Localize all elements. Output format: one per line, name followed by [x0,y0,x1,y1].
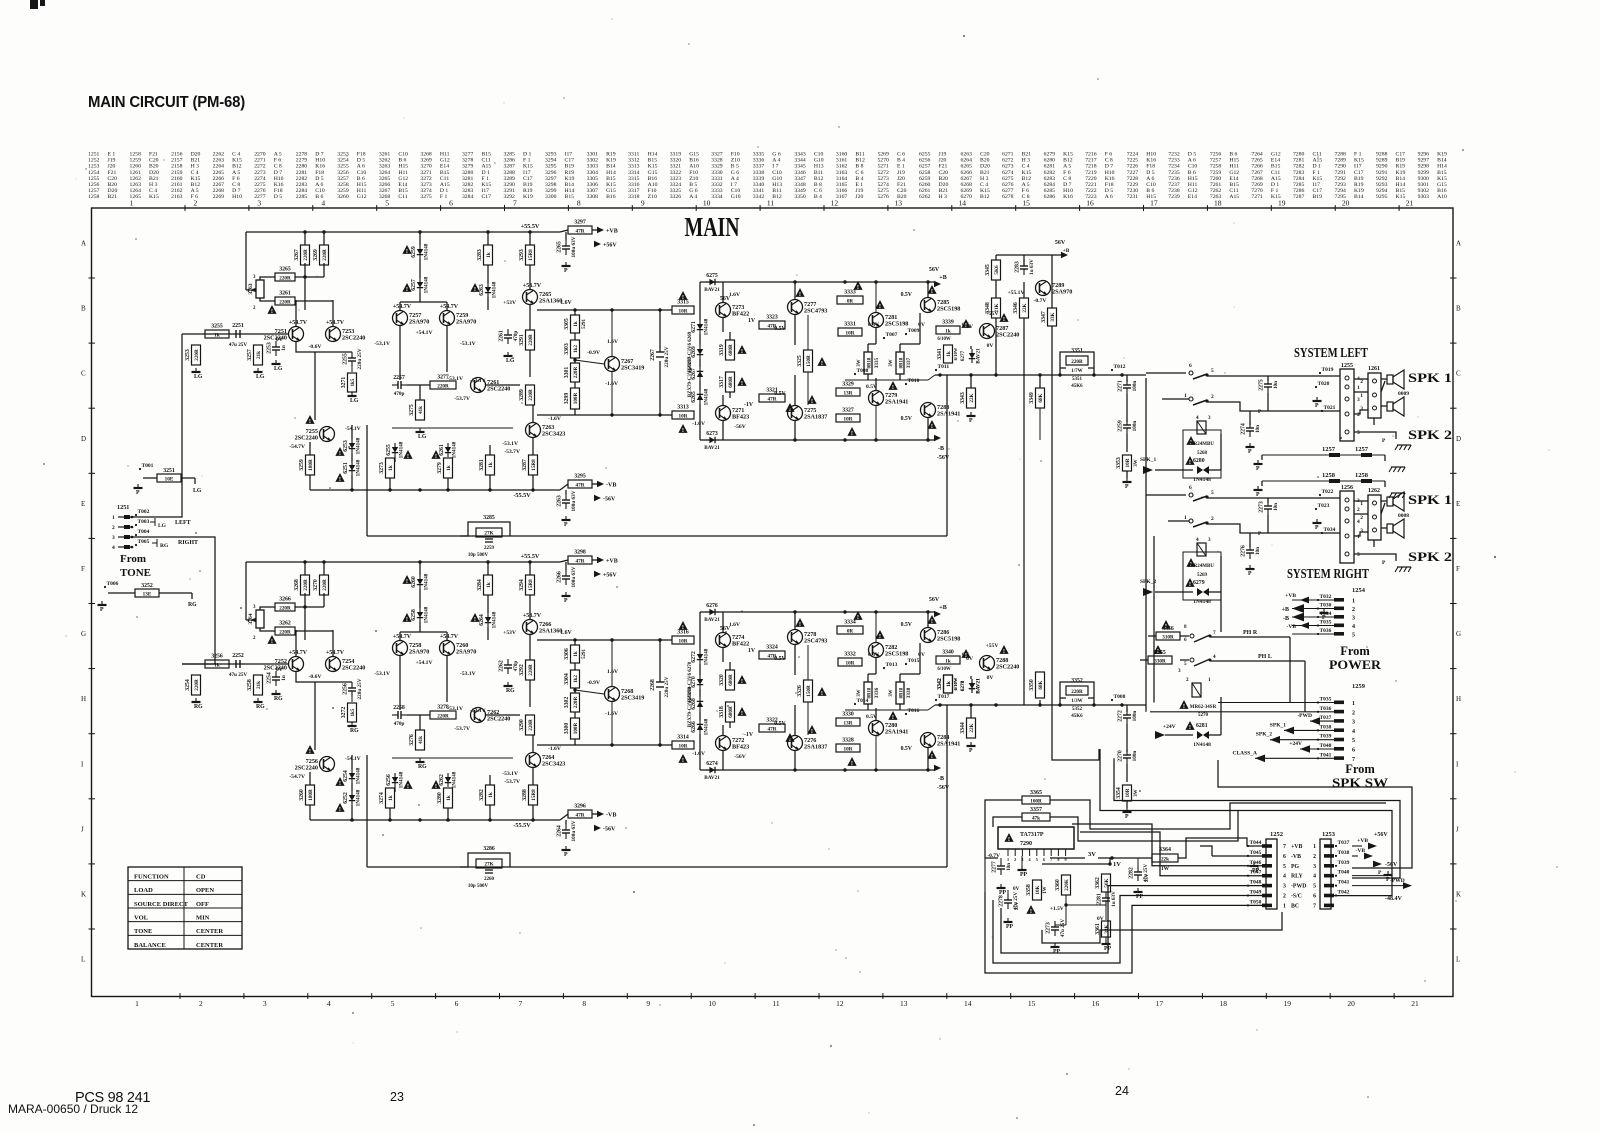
svg-text:F18: F18 [357,152,366,158]
signal arrow [934,281,941,287]
svg-text:3283: 3283 [462,188,474,194]
svg-text:B 6: B 6 [398,158,406,164]
svg-text:4: 4 [321,199,325,208]
svg-text:B15: B15 [1229,182,1239,188]
capacitor 2254 1n [267,671,288,686]
resistor 3358 10K [1026,880,1042,900]
svg-text:3348: 3348 [794,182,806,188]
capacitor 2251 47u [229,323,248,348]
svg-text:5271: 5271 [877,164,889,170]
warning triangle [785,403,794,413]
wire rail left drop [245,562,247,620]
svg-text:B11: B11 [855,152,864,158]
wire pin4 link [1080,832,1262,876]
svg-text:13R: 13R [844,720,853,726]
svg-text:3262: 3262 [279,621,291,627]
svg-text:F21: F21 [897,182,906,188]
ground P [1123,478,1132,490]
wire ladder [304,263,306,310]
svg-text:2258: 2258 [393,705,405,711]
svg-text:0R: 0R [847,298,854,304]
test point T007 [883,332,898,339]
svg-text:BAV21: BAV21 [976,348,982,364]
svg-text:-56V: -56V [603,497,616,503]
svg-text:5273: 5273 [877,176,889,182]
svg-text:3290: 3290 [504,182,516,188]
svg-text:PP: PP [1020,872,1028,878]
resistor 3288 15R8 [522,785,538,805]
svg-text:3293: 3293 [545,152,557,158]
wire trim links [246,289,250,291]
warning triangle [737,377,746,387]
svg-text:47R: 47R [576,558,585,564]
svg-text:3: 3 [1352,720,1355,726]
svg-text:4: 4 [1213,654,1216,660]
capacitor 2283 1u 63V [1015,259,1036,275]
pin 3 1254 [1292,611,1355,622]
svg-text:3: 3 [1360,406,1363,412]
svg-text:!: ! [339,450,341,457]
ground LG [416,428,427,440]
svg-text:G12: G12 [1188,188,1198,194]
svg-text:!: ! [407,453,409,460]
svg-text:6251: 6251 [343,462,349,474]
svg-text:220R: 220R [194,349,200,361]
svg-text:B12: B12 [232,164,242,170]
warning triangle [1186,436,1195,446]
svg-text:0.5V: 0.5V [901,292,913,298]
svg-text:G15: G15 [689,152,699,158]
svg-text:1.6V: 1.6V [729,622,740,628]
svg-text:220R: 220R [573,696,579,708]
svg-text:16: 16 [1092,999,1100,1008]
svg-text:3314: 3314 [628,170,640,176]
svg-text:2SA1360: 2SA1360 [539,298,562,305]
svg-text:MR62-34SR: MR62-34SR [1190,705,1217,710]
resistor 3300 100R [564,718,580,739]
relay 5270 MR62-34SR [1179,677,1216,718]
svg-text:2SC2240: 2SC2240 [487,716,510,723]
svg-text:7289: 7289 [1335,158,1347,164]
warning triangle [1179,700,1188,710]
svg-text:7262: 7262 [1210,188,1222,194]
capacitor 2275 10n [1259,378,1280,393]
resistor 3362 56K [1095,874,1111,892]
svg-text:6284: 6284 [1044,182,1056,188]
svg-text:7281: 7281 [1293,158,1305,164]
svg-text:1N4148: 1N4148 [424,606,430,623]
ground LG [254,368,265,380]
svg-text:3340: 3340 [942,650,954,656]
transistor 7284 2SA1941 [921,733,961,748]
resistor 3338 0R18 [889,682,912,704]
resistor 3275 41k [409,400,425,420]
svg-text:3336: 3336 [874,687,880,698]
wire comp [407,384,430,386]
svg-text:220R: 220R [322,249,328,261]
svg-text:220u 25V: 220u 25V [664,346,670,367]
svg-text:9289: 9289 [1376,158,1388,164]
svg-text:3301: 3301 [564,367,570,379]
svg-text:3259: 3259 [299,459,305,471]
svg-text:G: G [81,630,86,638]
switch contact b [1184,515,1214,527]
svg-text:2SA1837: 2SA1837 [804,744,827,751]
svg-text:3327: 3327 [711,152,723,158]
svg-text:3287: 3287 [504,164,516,170]
svg-text:T008: T008 [1114,694,1126,700]
svg-text:C17: C17 [523,176,533,182]
svg-text:D 7: D 7 [232,188,241,194]
svg-text:220R: 220R [528,389,534,401]
svg-text:C: C [1456,370,1461,378]
svg-text:-1.6V: -1.6V [548,746,561,752]
svg-text:-VB: -VB [1287,624,1297,630]
svg-text:!: ! [682,294,684,301]
svg-text:1N4148: 1N4148 [356,459,362,476]
capacitor 2278 47u 25V [999,892,1020,911]
svg-text:P: P [100,607,104,613]
svg-text:3284: 3284 [462,194,474,200]
svg-text:T011: T011 [938,364,950,370]
warning triangle [807,395,816,405]
svg-text:6280: 6280 [1044,158,1056,164]
svg-text:LG: LG [506,358,515,364]
svg-text:3270: 3270 [313,579,319,591]
transistor 7281 2SC5198 [869,313,909,328]
svg-text:3328: 3328 [842,738,854,744]
svg-text:-1.6V: -1.6V [548,416,561,422]
svg-text:1/7W: 1/7W [1071,369,1082,374]
svg-text:J19: J19 [897,170,905,176]
resistor 3271 1k5 [341,373,357,392]
wire emitter join [296,342,352,352]
svg-text:2284: 2284 [296,188,308,194]
svg-text:G 6: G 6 [772,152,781,158]
svg-text:3339: 3339 [753,176,765,182]
svg-text:47R: 47R [576,812,585,818]
svg-text:K19: K19 [523,194,533,200]
resistor 3357 47k [1022,807,1050,822]
junction dots top rail [303,560,531,563]
svg-text:+VB: +VB [606,229,618,235]
svg-text:!: ! [339,806,341,813]
svg-text:7257: 7257 [1210,158,1222,164]
svg-text:CENTER: CENTER [196,928,223,935]
svg-text:6260: 6260 [919,182,931,188]
svg-text:SPK_2: SPK_2 [1256,732,1272,738]
arrow -B [1292,613,1304,622]
svg-text:F 1: F 1 [440,194,448,200]
svg-text:3318: 3318 [628,194,640,200]
svg-text:1263: 1263 [130,182,142,188]
svg-text:21: 21 [1406,199,1414,208]
svg-text:220R: 220R [437,713,449,719]
svg-text:B20: B20 [108,182,118,188]
svg-text:0R18: 0R18 [900,687,905,698]
grid row letters right [1456,240,1461,964]
svg-text:2: 2 [1313,854,1316,860]
resistor 3342 1k [937,675,953,693]
svg-text:+55V: +55V [986,311,999,317]
wire conn links [1354,378,1368,380]
svg-text:56V: 56V [1055,240,1066,246]
svg-text:H11: H11 [1229,164,1239,170]
warning triangle [267,635,276,645]
ground P [1313,397,1322,409]
svg-text:OFF: OFF [196,901,209,908]
svg-text:BAV21: BAV21 [704,775,720,781]
ground P [1123,808,1132,820]
diode 6258 1N4148 [411,606,430,623]
svg-text:3347: 3347 [1041,311,1047,323]
svg-text:2272: 2272 [1118,710,1124,722]
svg-text:1256: 1256 [88,182,100,188]
wire contact a out [1207,497,1340,499]
output RC to ground [1126,705,1128,712]
svg-text:+VB: +VB [1291,844,1302,850]
wire out rail [935,704,1146,706]
svg-text:3290: 3290 [519,719,525,731]
svg-text:H13: H13 [814,164,824,170]
svg-text:!: ! [741,678,743,685]
svg-text:7286: 7286 [1293,188,1305,194]
svg-text:I17: I17 [1312,182,1320,188]
svg-text:H 3: H 3 [1022,158,1031,164]
svg-text:2281: 2281 [1097,893,1103,905]
warning triangle [847,427,856,437]
svg-text:3: 3 [1208,537,1211,543]
svg-text:1N4148: 1N4148 [492,281,498,298]
wire relay feed vert [1220,592,1222,632]
resistor 3266 220R [275,597,295,612]
svg-text:6282: 6282 [1044,170,1056,176]
resistor 3274 1k [379,788,395,808]
svg-text:B15: B15 [1271,164,1281,170]
svg-text:2SC5198: 2SC5198 [885,321,908,328]
svg-text:0V: 0V [987,675,994,681]
transistor 7274 BF422 [716,626,750,648]
svg-text:3316: 3316 [628,182,640,188]
svg-text:2SC5198: 2SC5198 [937,306,960,313]
svg-text:BF423: BF423 [732,414,749,421]
svg-text:2276: 2276 [254,188,266,194]
test point T030 [1317,603,1332,610]
svg-text:7288: 7288 [1335,152,1347,158]
svg-text:-53.1V: -53.1V [374,341,390,347]
svg-text:B15: B15 [481,152,491,158]
svg-text:K19: K19 [1354,188,1364,194]
svg-text:3291: 3291 [519,334,525,346]
svg-text:1: 1 [1313,844,1316,850]
resistor 3290 220R [519,715,535,735]
ground LG [272,360,283,372]
svg-text:7234: 7234 [1168,164,1180,170]
svg-text:45K6: 45K6 [1071,384,1083,389]
svg-text:C10: C10 [772,170,782,176]
svg-text:3342: 3342 [937,678,943,690]
svg-text:3345: 3345 [794,164,806,170]
diode 6281 1N4148 [1155,697,1221,748]
diode 6260 1N4148 [411,573,430,590]
svg-text:2277: 2277 [992,861,998,873]
svg-text:1k: 1k [945,328,951,334]
resistor 3267 220R [294,245,310,265]
warning triangle [795,618,804,628]
warning triangle [961,649,970,659]
svg-text:2271: 2271 [254,158,266,164]
svg-text:+53V: +53V [503,630,516,636]
svg-text:0V: 0V [918,652,925,658]
resistor 3273 1k [379,458,395,478]
svg-text:TONE: TONE [120,567,151,579]
svg-text:!: ! [407,783,409,790]
svg-text:-0.9V: -0.9V [587,680,600,686]
svg-text:3W: 3W [857,359,862,366]
transistor 7286 2SC5198 [921,628,961,643]
svg-text:H: H [81,695,86,703]
svg-text:1u 63V: 1u 63V [1029,259,1035,275]
svg-text:7228: 7228 [1127,176,1139,182]
svg-text:CENTER: CENTER [196,942,223,949]
svg-text:2157: 2157 [171,158,183,164]
svg-text:5275: 5275 [877,188,889,194]
svg-text:3V: 3V [1088,851,1096,858]
svg-text:B19: B19 [565,164,575,170]
capacitor 2268 220u [650,640,670,745]
test point T038 [1317,724,1332,731]
transistor 7278 2SC4793 [788,630,828,645]
capacitor 2258 470p [392,705,407,727]
svg-text:2SA970: 2SA970 [456,319,476,326]
svg-text:1k5: 1k5 [350,378,356,386]
svg-text:2SC3419: 2SC3419 [621,365,644,372]
wire +B rail [700,611,935,613]
svg-text:2: 2 [1186,677,1189,683]
ground pin2 PP [1018,856,1028,878]
svg-text:2259: 2259 [1118,420,1124,432]
svg-text:RG: RG [274,696,283,702]
wire driver rails [794,612,796,629]
ground PP [1018,866,1028,878]
svg-text:T037: T037 [1338,840,1350,846]
svg-text:!: ! [931,288,933,295]
resistor 3254 220R [185,675,201,695]
svg-text:G12: G12 [357,194,367,200]
svg-text:T002: T002 [138,509,150,515]
wire ph routing [1289,637,1291,703]
svg-text:T036: T036 [1320,706,1332,712]
grid column ticks top [185,205,1399,211]
svg-text:VR24MBU: VR24MBU [1190,564,1214,569]
svg-text:RLY: RLY [1291,874,1304,880]
svg-text:3344: 3344 [960,722,966,734]
ground 1253 P [1352,870,1393,883]
svg-text:H14: H14 [1396,182,1406,188]
svg-text:2: 2 [1014,857,1016,862]
svg-text:+B: +B [1282,607,1289,613]
capacitor 2271 100n [1118,379,1139,394]
svg-text:3358: 3358 [1026,884,1032,896]
svg-text:T048: T048 [1250,880,1262,886]
svg-text:+54.1V: +54.1V [415,330,432,336]
diode 6270 [691,675,703,689]
svg-text:3319: 3319 [670,152,682,158]
svg-text:E 1: E 1 [855,182,863,188]
capacitor 2270 100n [1118,749,1139,764]
svg-text:3294: 3294 [545,158,557,164]
svg-text:!: ! [309,748,311,755]
resistor 3277 220R [430,375,456,390]
svg-text:J20: J20 [108,164,116,170]
svg-text:220R: 220R [437,383,449,389]
svg-text:BZX79-C3V6 6268: BZX79-C3V6 6268 [688,686,693,727]
svg-text:1259: 1259 [130,158,142,164]
svg-text:-PWD: -PWD [1291,884,1306,890]
svg-text:B 6: B 6 [1229,152,1237,158]
svg-text:0V: 0V [276,667,284,673]
svg-text:BAV21: BAV21 [704,287,720,293]
capacitor 2277 10n [992,860,1013,875]
wire vas base link [392,427,513,429]
svg-text:-VB: -VB [606,813,616,819]
svg-text:C20: C20 [149,158,159,164]
svg-text:-54.1V: -54.1V [345,426,361,432]
output RC to ground [1126,375,1128,382]
svg-text:7225: 7225 [1127,158,1139,164]
svg-text:41k: 41k [418,736,424,744]
svg-text:P: P [1315,403,1319,409]
svg-text:B14: B14 [565,182,575,188]
svg-text:6258: 6258 [919,170,931,176]
svg-text:2: 2 [1360,515,1363,521]
feedback RC [460,846,510,889]
svg-text:3W: 3W [1134,459,1139,466]
diode 6263 1N4148 [479,281,498,298]
svg-text:3323: 3323 [766,315,778,321]
svg-text:3273: 3273 [379,462,385,474]
svg-text:T005: T005 [138,539,150,545]
svg-text:6279: 6279 [1044,152,1056,158]
chassis ground [1395,445,1411,450]
svg-text:3305: 3305 [564,318,570,330]
resistor 3305 1k [564,315,580,333]
svg-text:K19: K19 [606,158,616,164]
svg-text:PP: PP [1006,924,1014,930]
svg-text:A10: A10 [1437,194,1447,200]
svg-text:6: 6 [1184,637,1187,643]
wire spk sw s1 [1218,760,1412,868]
svg-text:F10: F10 [689,170,698,176]
transistor 7264 2SC3423 [526,753,566,768]
diode BAV21 [969,348,982,364]
svg-text:-0.7V: -0.7V [1034,298,1047,304]
svg-text:3253: 3253 [185,349,191,361]
svg-text:2270: 2270 [1118,750,1124,762]
transistor 7277 2SC4793 [788,300,828,315]
connector 1261 [1360,366,1381,418]
ground PP [997,884,1007,896]
test point T034 [1321,527,1336,534]
svg-text:B16: B16 [689,158,699,164]
link 1257 [1254,446,1406,472]
wire 3v staircase [1178,838,1262,858]
transistor 7287 2SC2240 [980,324,1020,339]
svg-text:1k: 1k [446,795,452,801]
svg-text:P: P [1248,571,1252,577]
svg-text:3327: 3327 [842,408,854,414]
resistor 3322 47R [759,718,785,733]
